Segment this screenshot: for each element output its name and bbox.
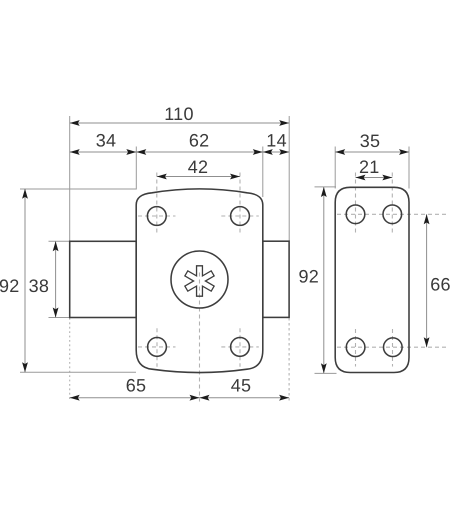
- svg-text:14: 14: [266, 131, 287, 151]
- centerline plate top holes horizontal: [337, 213, 447, 215]
- plate hole bottom-right: [384, 338, 403, 357]
- arrowheads dimension 35: [335, 149, 345, 155]
- extension line body right edge up: [262, 147, 264, 198]
- extension line cylinder bottom tick: [49, 317, 71, 319]
- svg-text:66: 66: [430, 275, 450, 295]
- svg-text:45: 45: [231, 376, 252, 396]
- centerline plate hole bottom-left vertical: [355, 329, 357, 367]
- key asterisk: [185, 266, 214, 296]
- dimension line 92 plate: [323, 187, 325, 373]
- dimension line 65-45: [70, 397, 289, 399]
- bolt: [263, 241, 289, 317]
- keyhole cylinder circle: [171, 251, 228, 308]
- arrowheads dimension 21: [356, 175, 366, 181]
- extension line plate left edge up: [334, 147, 336, 189]
- dimension line 38: [55, 241, 57, 317]
- centerline hole bottom-right horizontal: [221, 346, 258, 348]
- centerline hole top-left vertical: [156, 173, 158, 234]
- arrowheads dimension 62: [136, 149, 146, 155]
- screw hole top-right: [231, 207, 250, 226]
- screw hole top-left: [147, 207, 166, 226]
- lock body: [136, 189, 263, 373]
- extension line below cylinder (dotted): [69, 318, 71, 402]
- arrowheads dimension 92 left: [22, 189, 28, 199]
- screw hole bottom-right: [231, 338, 250, 357]
- svg-text:92: 92: [298, 266, 319, 286]
- dimension line 110: [70, 122, 290, 124]
- extension line bolt right edge up: [288, 116, 290, 241]
- svg-text:110: 110: [164, 104, 194, 124]
- centerline plate bottom holes horizontal: [337, 346, 447, 348]
- svg-text:34: 34: [96, 131, 117, 151]
- arrowheads dimension 110: [70, 120, 80, 126]
- arrowheads dimension 92 plate: [321, 187, 327, 197]
- dimension line 34-62-14: [70, 151, 290, 153]
- arrowheads dimension 65: [70, 395, 80, 401]
- svg-text:21: 21: [359, 157, 380, 177]
- arrowheads dimension 42: [157, 174, 167, 180]
- arrowheads dimension 45: [200, 395, 210, 401]
- arrowheads dimension 66: [424, 214, 430, 224]
- centerline hole top-right horizontal: [221, 215, 258, 217]
- extension line body left edge up: [135, 147, 137, 190]
- dimension line 35: [335, 151, 409, 153]
- extension line cylinder left edge up: [69, 116, 71, 241]
- centerline hole top-left horizontal: [138, 215, 176, 217]
- centerline plate hole bottom-right vertical: [392, 329, 394, 367]
- arrowheads dimension 14: [263, 149, 273, 155]
- arrowheads dimension 38: [53, 241, 59, 251]
- plate hole bottom-left: [346, 338, 365, 357]
- dimension line 66: [426, 214, 428, 347]
- extension line plate top left: [315, 186, 337, 188]
- centerline hole bottom-right vertical: [239, 328, 241, 367]
- centerline plate hole top-left vertical: [355, 173, 357, 234]
- svg-text:35: 35: [360, 131, 381, 151]
- extension line body bottom left: [20, 371, 136, 373]
- centerline keyhole vertical: [199, 273, 201, 402]
- centerline hole top-right vertical: [239, 173, 241, 234]
- extension line below bolt (dashed): [288, 318, 290, 402]
- centerline plate hole top-right vertical: [391, 173, 393, 234]
- dimension line 21: [356, 177, 393, 179]
- strike plate: [335, 187, 409, 372]
- extension line body top left: [20, 188, 136, 190]
- arrowheads dimension 34: [70, 149, 80, 155]
- dimension line 92 left: [24, 189, 26, 373]
- extension line plate right edge up: [408, 147, 410, 189]
- screw hole bottom-left: [148, 338, 167, 357]
- plate hole top-right: [383, 205, 402, 224]
- svg-text:92: 92: [0, 276, 20, 296]
- centerline hole bottom-left horizontal: [138, 346, 176, 348]
- svg-text:42: 42: [188, 157, 209, 177]
- extension line plate bottom left: [315, 372, 337, 374]
- centerline hole bottom-left vertical: [156, 328, 158, 367]
- svg-text:65: 65: [126, 376, 147, 396]
- dimension line 42: [157, 176, 240, 178]
- svg-text:62: 62: [189, 131, 210, 151]
- svg-text:38: 38: [29, 276, 50, 296]
- plate hole top-left: [346, 205, 365, 224]
- cylinder housing: [70, 241, 137, 317]
- extension line cylinder top tick: [49, 240, 71, 242]
